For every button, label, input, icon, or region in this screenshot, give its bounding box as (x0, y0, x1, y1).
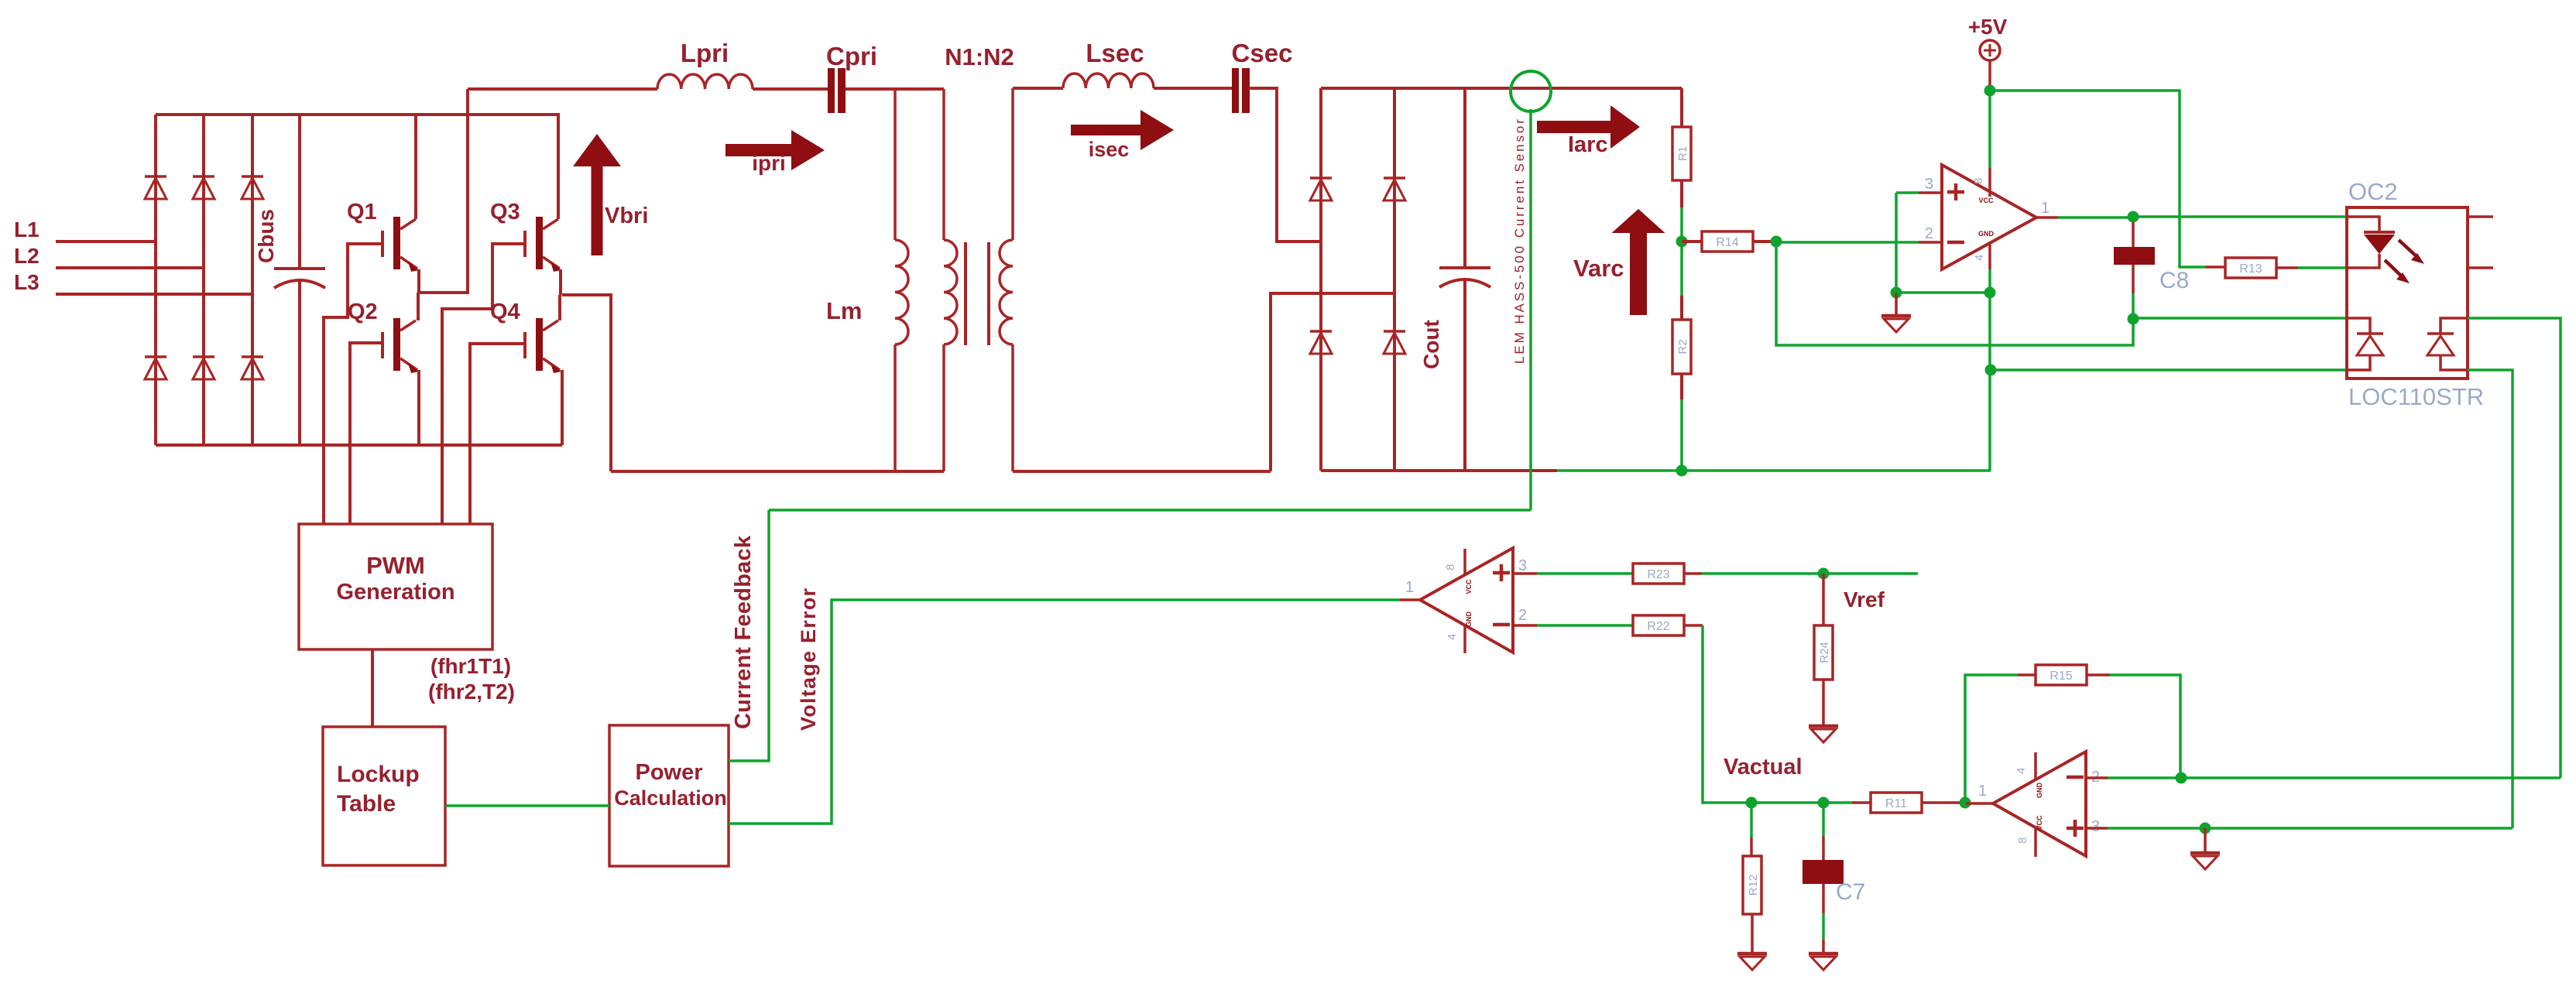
svg-text:Csec: Csec (1232, 39, 1293, 67)
svg-text:PWM: PWM (366, 552, 425, 579)
wire R22 to vactual (1684, 624, 1703, 627)
resistor R12 branch (1750, 803, 1753, 837)
node U3 pin2 junction (2176, 772, 2187, 784)
wire R15 to pin2 (2087, 673, 2110, 676)
transistor Q4 (536, 318, 543, 371)
wire OC2 out bottom (2468, 370, 2513, 828)
wire node to R14 (1682, 240, 1702, 243)
wire current feedback horizontal (769, 509, 1531, 512)
svg-text:1: 1 (1405, 579, 1414, 596)
wire U3 pin3 (2086, 827, 2108, 830)
svg-text:3: 3 (2091, 818, 2100, 835)
wire opto return (1991, 368, 2347, 372)
node U1 gnd A (1891, 287, 1902, 299)
diode D7 (1310, 176, 1332, 180)
wire current feedback (729, 510, 769, 761)
wire U3 output (1965, 802, 1993, 805)
svg-text:R15: R15 (2049, 670, 2072, 683)
node U3 pin3 junction (2200, 823, 2211, 834)
svg-text:VCC: VCC (1465, 579, 1473, 594)
svg-text:Vref: Vref (1844, 587, 1885, 611)
svg-text:Cbus: Cbus (254, 209, 278, 263)
inductor Lm (894, 89, 897, 240)
capacitor C8 (2132, 222, 2135, 248)
ground Vref divider (1809, 724, 1838, 728)
transistor Q2 (393, 318, 400, 371)
resistor R22 (1633, 615, 1684, 635)
pin OC2 nc mid (2468, 266, 2493, 269)
wire Lsec to Csec (1154, 87, 1233, 90)
svg-text:Generation: Generation (336, 580, 454, 605)
wire R24 to gnd (1822, 680, 1825, 724)
svg-text:+5V: +5V (1968, 15, 2008, 39)
svg-text:Lm: Lm (826, 297, 863, 324)
node Vactual junction B (1818, 797, 1830, 809)
svg-text:GND: GND (1465, 611, 1473, 628)
wire R1 to node (1680, 180, 1683, 207)
wire vactual link (1751, 801, 1823, 804)
svg-text:8: 8 (1444, 564, 1457, 570)
wire U3 pin2 (2086, 776, 2108, 779)
svg-text:Voltage Error: Voltage Error (797, 588, 820, 731)
svg-text:LOC110STR: LOC110STR (2348, 383, 2484, 410)
block Lockup Table (323, 727, 445, 865)
svg-text:Q3: Q3 (490, 200, 520, 224)
resistor R15 (2036, 665, 2087, 685)
wire L3 phase line (56, 293, 252, 296)
diode D1 (145, 175, 166, 178)
wire U2 pin2 (1514, 624, 1537, 627)
svg-text:1: 1 (1978, 783, 1987, 800)
diode D9 (1310, 330, 1332, 333)
diode D5 (193, 355, 214, 358)
capacitor Cout (1463, 88, 1466, 268)
wire L1 phase line (56, 240, 156, 243)
wire Q2 gate (350, 343, 382, 524)
capacitor C7 (1822, 803, 1825, 836)
svg-text:Table: Table (337, 791, 396, 817)
op-amp U3 (1993, 752, 2086, 856)
node +5V junction (1984, 85, 1996, 97)
wire rectifier leg 1 (154, 115, 157, 445)
svg-text:Lpri: Lpri (681, 39, 729, 67)
svg-text:R2: R2 (1676, 339, 1689, 354)
wire leg2 midpoint (562, 295, 611, 471)
wire Q3 emitter (559, 269, 562, 295)
wire U3 feedback up (1965, 675, 2018, 803)
wire R14 to node (1753, 240, 1776, 243)
resistor R1 (1672, 127, 1691, 180)
svg-text:Lockup: Lockup (337, 762, 420, 787)
diode OC2 photodiode A (2347, 318, 2370, 334)
wire rectifier leg 3 (251, 115, 254, 445)
wire U1 power down (1988, 269, 1991, 471)
capacitor Cbus (298, 115, 301, 269)
svg-text:R13: R13 (2239, 262, 2262, 276)
wire vref to R24 (1822, 574, 1825, 625)
node Iarc arrow (1537, 121, 1610, 133)
svg-text:2: 2 (1925, 225, 1933, 242)
svg-text:L1: L1 (14, 217, 39, 241)
node Vbri arrow (592, 166, 603, 255)
pin OC2 nc top (2468, 215, 2493, 218)
svg-text:Vactual: Vactual (1724, 755, 1803, 779)
diode D3 (242, 175, 263, 178)
wire rectifier bottom rail (156, 444, 562, 447)
wire Q1 emitter (417, 269, 420, 293)
wire Q4 gate (470, 344, 525, 524)
wire +5V down to opamp (1988, 91, 1991, 168)
svg-text:R22: R22 (1647, 620, 1669, 633)
wire L2 phase line (56, 266, 204, 269)
svg-text:LEM HASS-500 Current Sensor: LEM HASS-500 Current Sensor (1512, 119, 1527, 364)
svg-text:R1: R1 (1676, 146, 1689, 161)
wire Q3 gate (442, 244, 525, 524)
resistor R14 (1702, 231, 1753, 252)
resistor R12 (1743, 856, 1761, 914)
ground C7 (1809, 952, 1838, 956)
resistor R11 (1871, 793, 1922, 813)
svg-text:4: 4 (1446, 634, 1459, 640)
transformer T1 secondary (1011, 88, 1014, 240)
wire vactual to R11 (1823, 801, 1852, 804)
svg-text:4: 4 (2015, 768, 2028, 774)
node U3 in junction (1960, 797, 1971, 809)
wire bridge to Lpri (468, 87, 657, 91)
diode D6 (242, 355, 263, 358)
wire LEM sense drop (1529, 109, 1532, 510)
svg-text:Calculation: Calculation (614, 786, 727, 810)
node U1 gnd B (1984, 287, 1996, 299)
svg-text:L3: L3 (14, 270, 39, 294)
wire R11 to U3 (1922, 801, 1965, 804)
svg-text:Q2: Q2 (348, 300, 378, 324)
wire R14 node to opamp pin2 (1776, 241, 1919, 244)
wire U2 pin3 (1514, 572, 1537, 575)
svg-text:3: 3 (1518, 557, 1527, 574)
wire output rect leg 1 (1319, 88, 1322, 471)
svg-text:1: 1 (2041, 200, 2049, 217)
wire Vref stub (1823, 572, 1918, 575)
capacitor Cpri (828, 68, 835, 113)
node R14 out (1771, 236, 1782, 248)
wire output rect bottom rail (1321, 469, 1557, 472)
diode D2 (193, 175, 214, 178)
inductor Lpri (657, 74, 753, 89)
svg-text:Cout: Cout (1419, 320, 1443, 369)
svg-text:GND: GND (2036, 783, 2043, 799)
wire primary bottom rail (611, 470, 944, 473)
block PWM Generation (299, 524, 492, 649)
transformer core (964, 242, 967, 345)
wire R12 to gnd (1751, 914, 1754, 952)
node C8 bottom (2128, 313, 2139, 325)
wire top rail corner (1680, 88, 1683, 127)
node divider mid (1676, 236, 1688, 248)
svg-text:R24: R24 (1818, 642, 1831, 663)
svg-text:Lsec: Lsec (1086, 39, 1144, 67)
node Vactual junction A (1746, 797, 1758, 809)
wire Q2 collector (417, 293, 420, 320)
diode D10 (1384, 330, 1405, 333)
svg-text:4: 4 (1973, 255, 1986, 261)
svg-text:3: 3 (1925, 176, 1933, 193)
wire output rect leg 2 (1393, 88, 1396, 471)
sensor LEM HASS-500 (1511, 71, 1551, 111)
svg-text:R11: R11 (1885, 797, 1907, 810)
wire R2 to bottom (1680, 374, 1683, 399)
svg-text:2: 2 (1518, 607, 1527, 624)
transformer T1 primary (942, 89, 945, 240)
op-to OC2 box (2347, 207, 2468, 378)
wire C8 bottom to OC2 (2133, 317, 2347, 320)
wire U1 out to OC2 (2133, 215, 2347, 218)
node ipri arrow (725, 144, 791, 156)
wire node to R2 (1680, 241, 1683, 296)
svg-text:R23: R23 (1647, 568, 1669, 581)
svg-text:Q4: Q4 (490, 300, 520, 324)
wire Csec to bridge input A (1249, 88, 1321, 241)
wire rectifier leg 2 (202, 115, 205, 445)
node bottom rail junction (1676, 465, 1688, 477)
wire Cpri to transformer (846, 87, 944, 91)
svg-text:Vbri: Vbri (605, 204, 648, 228)
svg-text:ipri: ipri (752, 151, 786, 175)
resistor R23 (1633, 563, 1684, 584)
resistor R2 (1672, 320, 1691, 374)
wire U1 pin3 (1896, 191, 1919, 194)
svg-text:L2: L2 (14, 244, 39, 268)
svg-text:N1:N2: N1:N2 (945, 43, 1014, 70)
wire Q1 collector (414, 115, 417, 219)
svg-text:Current Feedback: Current Feedback (731, 535, 756, 729)
svg-text:Q1: Q1 (347, 200, 377, 224)
svg-text:C8: C8 (2159, 268, 2189, 293)
wire rectifier top rail (156, 113, 560, 116)
node U1 out junction (2128, 211, 2139, 223)
node lower green junction (1985, 365, 1997, 376)
wire secondary top (1013, 87, 1063, 90)
svg-text:GND: GND (1978, 230, 1995, 238)
svg-text:OC2: OC2 (2348, 178, 2398, 205)
capacitor Csec (1232, 68, 1239, 113)
svg-text:VCC: VCC (1978, 197, 1994, 204)
svg-text:R14: R14 (1716, 236, 1738, 249)
wire lockup to power (445, 804, 609, 807)
transistor Q1 (393, 217, 400, 269)
wire Q3 collector (557, 115, 560, 219)
node isec arrow (1071, 125, 1141, 135)
wire U2 output (1400, 598, 1420, 601)
svg-text:Iarc: Iarc (1568, 132, 1608, 157)
block Power Calculation (609, 725, 729, 866)
wire bottom rail green (1557, 469, 1991, 472)
ground R12 (1737, 952, 1767, 956)
svg-text:(fhr2,T2): (fhr2,T2) (428, 680, 515, 704)
wire +5V to R13 branch (1990, 91, 2206, 267)
op-amp U2 (1420, 548, 1513, 652)
wire PWM to lockup (371, 649, 374, 727)
svg-text:C7: C7 (1836, 879, 1865, 905)
wire U1 output (2036, 216, 2058, 219)
wire voltage error (729, 600, 1400, 824)
inductor Lsec (1063, 74, 1154, 88)
wire R14 node to C8 bottom (1776, 241, 2133, 345)
svg-text:Power: Power (635, 760, 702, 785)
wire Q4 collector (558, 295, 561, 320)
transistor Q3 (536, 217, 543, 269)
wire leg1 midpoint (419, 89, 468, 293)
svg-text:R12: R12 (1747, 875, 1760, 896)
node Varc arrow (1630, 233, 1647, 315)
wire secondary bottom rail (1013, 470, 1271, 473)
wire Q4 emitter (561, 370, 564, 445)
ground U3 pin3 (2204, 828, 2207, 851)
svg-text:(fhr1T1): (fhr1T1) (430, 654, 511, 678)
wire bridge input B (1271, 293, 1394, 471)
svg-text:8: 8 (1972, 178, 1985, 184)
wire Q1 gate (324, 244, 382, 524)
diode OC2 photodiode B (2441, 318, 2468, 334)
op-amp U1 (1942, 165, 2036, 269)
svg-text:8: 8 (2016, 837, 2029, 844)
wire OC2 out top (2468, 318, 2561, 778)
diode D8 (1384, 176, 1405, 180)
wire R23 to vref node (1684, 572, 1702, 575)
wire Lpri to Cpri (753, 87, 828, 91)
wire gnd link (1896, 291, 1990, 294)
diode OC2 LED (2347, 217, 2379, 232)
svg-text:VCC: VCC (2036, 815, 2043, 831)
diode D4 (145, 355, 166, 358)
wire Q2 emitter (417, 370, 420, 445)
resistor R24 (1814, 625, 1833, 680)
node Vref junction (1818, 568, 1830, 580)
wire output rect top rail (1321, 87, 1682, 90)
node OC2 light arrows (2399, 240, 2419, 259)
wire U1 pin3 to gnd node (1895, 193, 1898, 293)
resistor R13 (2206, 265, 2224, 269)
svg-text:Cpri: Cpri (826, 42, 877, 70)
svg-text:isec: isec (1089, 138, 1130, 161)
svg-text:Varc: Varc (1573, 255, 1624, 282)
ground U1 (1895, 293, 1898, 314)
